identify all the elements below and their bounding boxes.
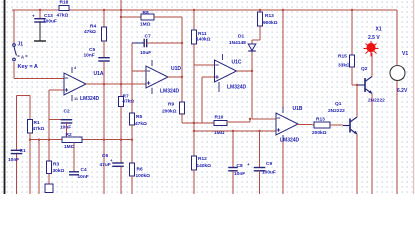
switch J1 — [13, 44, 28, 61]
svg-text:V1: V1 — [402, 51, 408, 57]
label C4 value — [78, 174, 89, 180]
label D1 — [238, 34, 244, 40]
op-amp U1B — [276, 113, 298, 135]
wire U1B minus in — [252, 118, 276, 120]
resistor R5 — [129, 113, 134, 125]
pin stub — [151, 60, 153, 66]
junction — [181, 42, 183, 44]
wire C9 top lead — [259, 131, 261, 167]
wire C1 branch — [17, 96, 31, 195]
svg-text:6.2V: 6.2V — [397, 88, 408, 94]
junction — [356, 84, 358, 86]
pin stub — [282, 107, 284, 113]
svg-text:U1A: U1A — [94, 71, 104, 77]
wire D1 cathode down — [251, 52, 253, 120]
wire R8 left lead — [121, 16, 141, 18]
resistor R1 — [27, 120, 32, 134]
capacitor C8 — [228, 168, 238, 171]
svg-text:C2: C2 — [64, 108, 70, 114]
capacitor C6 — [112, 163, 124, 166]
svg-text:U1D: U1D — [171, 66, 181, 72]
svg-text:10nF: 10nF — [8, 157, 19, 163]
label V1 — [402, 51, 408, 57]
label R14 value — [263, 20, 278, 26]
svg-text:200kΩ: 200kΩ — [312, 130, 327, 136]
wire R15 bottom lead — [351, 67, 353, 85]
wire C4 top lead — [73, 143, 75, 172]
svg-text:2N2222: 2N2222 — [328, 108, 345, 114]
label R7 value — [122, 98, 134, 104]
resistor R6 — [129, 163, 134, 176]
junction — [38, 139, 40, 141]
label R2 — [66, 132, 72, 138]
label R15 — [338, 54, 347, 60]
label R18 — [60, 0, 69, 5]
wire R14 top stub — [259, 10, 261, 12]
wire Q2 emitter down — [371, 94, 373, 195]
junction — [282, 9, 284, 11]
label U1A LM324D — [80, 96, 100, 102]
junction — [120, 83, 122, 85]
resistor R2 — [62, 137, 82, 143]
junction — [258, 130, 260, 132]
wire V1 bottom lead — [396, 81, 398, 194]
wire U1B V+ feed — [282, 10, 284, 108]
wire R10 to minus node — [249, 119, 251, 122]
wire feedback down — [181, 17, 183, 43]
pin stub — [151, 88, 153, 94]
label U1D LM324D — [160, 89, 180, 95]
wire C8 top lead — [232, 131, 234, 167]
junction — [131, 139, 133, 141]
svg-text:LM324D: LM324D — [227, 85, 247, 91]
label R12 value — [197, 163, 212, 169]
wire left rail lower — [13, 62, 15, 79]
wire R3 top chain — [48, 90, 50, 161]
svg-text:11: 11 — [74, 97, 78, 101]
wire R1 top lead — [29, 96, 31, 120]
pin stub — [282, 135, 284, 141]
label R8 — [143, 10, 149, 16]
window border line — [4, 0, 6, 194]
wire R15 top lead — [351, 10, 353, 55]
label R11 — [198, 31, 207, 37]
label C13 — [44, 13, 53, 19]
wire R9 bottom lead — [181, 113, 183, 123]
label R11 value — [196, 37, 211, 43]
resistor R7 — [118, 97, 123, 107]
svg-text:200kΩ: 200kΩ — [162, 109, 177, 115]
svg-text:R3: R3 — [53, 162, 59, 168]
junction — [259, 9, 261, 11]
label C1 value — [8, 157, 19, 163]
svg-text:X1: X1 — [376, 27, 382, 33]
svg-text:47kΩ: 47kΩ — [33, 126, 45, 132]
junction — [181, 76, 183, 78]
svg-text:2.5 V: 2.5 V — [368, 35, 380, 41]
label R5 value — [135, 121, 147, 127]
resistor R13 — [314, 122, 330, 128]
resistor R9 — [179, 102, 184, 114]
label R3 — [53, 162, 59, 168]
label C6 — [102, 153, 108, 159]
svg-text:C4: C4 — [81, 167, 87, 173]
svg-text:+: + — [32, 14, 35, 19]
svg-text:140kΩ: 140kΩ — [196, 37, 211, 43]
junction — [193, 122, 195, 124]
wire C7 left lead — [132, 42, 144, 44]
wire C13 top lead — [39, 10, 41, 19]
capacitor C1 — [11, 150, 23, 153]
pin stub — [218, 82, 220, 92]
junction — [103, 139, 105, 141]
wire to R9 — [181, 43, 183, 102]
wire U1C minus in — [194, 64, 215, 66]
junction — [39, 9, 41, 11]
wire C7 branch down — [131, 43, 133, 113]
svg-text:C8: C8 — [237, 163, 243, 169]
wire C7 right lead — [147, 42, 182, 44]
capacitor C2 — [61, 120, 73, 123]
label Key = A — [18, 64, 38, 70]
wire Q1 emitter down — [356, 134, 358, 194]
svg-text:R6: R6 — [137, 167, 143, 173]
wire left rail upper — [13, 10, 15, 45]
label C8 value — [234, 171, 245, 177]
label R10 value — [214, 130, 225, 136]
wire C2 tap — [49, 119, 67, 121]
junction — [232, 130, 234, 132]
label R10 — [215, 115, 224, 121]
wire R10 right lead — [227, 121, 250, 123]
wire U1B minus in — [132, 70, 146, 72]
label C2 — [64, 108, 70, 114]
junction — [120, 16, 122, 18]
junction — [103, 83, 105, 85]
label R4 — [90, 23, 96, 29]
svg-text:10uF: 10uF — [140, 50, 151, 56]
wire top rail left — [12, 9, 59, 11]
label R1 value — [33, 126, 45, 132]
label R15 value — [338, 63, 350, 69]
resistor R12 — [191, 156, 196, 170]
resistor R15 — [349, 55, 354, 67]
svg-text:47kΩ: 47kΩ — [57, 13, 69, 19]
svg-text:R18: R18 — [60, 0, 69, 5]
label U1C LM324D — [227, 85, 247, 91]
op-amp U1A — [64, 73, 86, 95]
label R14 — [265, 13, 274, 19]
wire V1 top lead — [396, 10, 398, 65]
label R2 value — [64, 144, 75, 150]
label C8 — [237, 163, 243, 169]
junction — [251, 70, 253, 72]
lamp X1 — [364, 41, 379, 57]
wire R11 top lead — [193, 10, 195, 30]
label U1C — [232, 60, 242, 66]
svg-text:30kΩ: 30kΩ — [53, 168, 65, 174]
svg-text:2N2222: 2N2222 — [368, 98, 385, 104]
label R18 value — [57, 13, 69, 19]
svg-text:C13: C13 — [44, 13, 53, 19]
junction — [48, 139, 50, 141]
svg-text:R15: R15 — [338, 54, 347, 60]
svg-text:+: + — [402, 66, 405, 71]
svg-text:R4: R4 — [90, 23, 96, 29]
wire R12 bottom lead — [193, 170, 195, 194]
resistor R10 — [214, 121, 227, 126]
label R3 value — [53, 168, 65, 174]
wire to D1 — [252, 39, 260, 41]
wire C9 bottom lead — [259, 171, 261, 194]
junction — [249, 118, 251, 120]
wire U1A minus in — [14, 78, 64, 80]
svg-text:R11: R11 — [198, 31, 207, 37]
junction — [103, 9, 105, 11]
wire U1A plus in — [49, 89, 64, 91]
transistor Q2 — [358, 77, 372, 94]
wire U1C plus branch — [201, 77, 203, 123]
label C9 value — [262, 170, 276, 176]
wire R5 to R6 — [131, 125, 133, 163]
label U1B — [293, 106, 303, 112]
junction — [193, 130, 195, 132]
wire to Q2 base — [352, 84, 358, 86]
wire U1B output — [297, 123, 314, 126]
svg-text:1MΩ: 1MΩ — [64, 144, 75, 150]
wire R6 bottom lead — [131, 176, 133, 194]
wire U1C plus in — [202, 76, 215, 78]
svg-text:100kΩ: 100kΩ — [136, 173, 151, 179]
label Q1 — [335, 101, 342, 107]
svg-text:R1: R1 — [34, 120, 40, 126]
svg-text:J1: J1 — [18, 42, 24, 48]
svg-text:100uF: 100uF — [43, 19, 57, 25]
label R6 value — [136, 173, 151, 179]
label C2 value — [60, 125, 71, 131]
label J1 — [18, 42, 24, 48]
label R4 value — [84, 29, 96, 35]
svg-text:C1: C1 — [20, 148, 26, 154]
wire R4 top lead — [103, 10, 105, 27]
label R13 value — [312, 130, 327, 136]
svg-text:R13: R13 — [265, 13, 274, 19]
svg-text:R5: R5 — [136, 114, 142, 120]
label C6 value — [100, 162, 111, 168]
svg-text:U1B: U1B — [293, 106, 303, 112]
capacitor C9 — [254, 168, 266, 171]
wire long bus x121 upper — [120, 0, 122, 97]
junction — [120, 9, 122, 11]
label V1 value — [397, 88, 408, 94]
label Q2 — [361, 66, 368, 72]
wire C5 chain down — [103, 61, 105, 194]
label C5 value — [84, 53, 95, 59]
junction — [29, 139, 31, 141]
svg-text:900kΩ: 900kΩ — [263, 20, 278, 26]
svg-text:1N4148: 1N4148 — [229, 40, 246, 46]
svg-text:R12: R12 — [198, 156, 207, 162]
label U1A — [94, 71, 104, 77]
wire U1A output — [86, 83, 146, 85]
resistor R8 — [141, 14, 154, 20]
label X1 value — [368, 35, 380, 41]
svg-text:R2: R2 — [66, 132, 72, 138]
wire R11 to R12 — [193, 44, 195, 156]
wire bottom bus right — [82, 139, 132, 141]
label C13 plus — [32, 14, 35, 19]
wire branch down — [38, 140, 40, 194]
connector pad — [45, 184, 53, 193]
svg-text:C5: C5 — [89, 47, 95, 53]
svg-text:Q2: Q2 — [361, 66, 368, 72]
label R12 — [198, 156, 207, 162]
svg-text:LM324D: LM324D — [160, 89, 180, 95]
wire bus below C6 — [120, 166, 122, 194]
svg-text:R8: R8 — [143, 10, 149, 16]
wire C2 bottom lead — [66, 123, 68, 137]
resistor R3 — [46, 161, 51, 174]
svg-text:10nF: 10nF — [84, 53, 95, 59]
pin stub U1A V- — [71, 95, 73, 101]
wire D1 anode lead — [251, 40, 253, 44]
wire R14 bottom lead — [259, 26, 261, 40]
label C9 — [266, 161, 272, 167]
op-amp U1C — [215, 60, 237, 82]
svg-text:+: + — [247, 162, 250, 167]
label C5 — [89, 47, 95, 53]
label X1 — [376, 27, 382, 33]
wire top rail — [69, 9, 397, 11]
wire Q1 collector up — [356, 85, 358, 117]
svg-text:U1C: U1C — [232, 60, 242, 66]
label R9 — [168, 102, 174, 108]
label R7 — [123, 94, 129, 100]
wire U1C output — [237, 70, 253, 72]
svg-text:1MΩ: 1MΩ — [140, 22, 151, 28]
label R5 — [136, 114, 142, 120]
svg-text:C7: C7 — [145, 34, 151, 40]
svg-text:A: A — [21, 55, 24, 60]
sheet border right — [413, 0, 414, 194]
svg-text:R10: R10 — [215, 115, 224, 121]
label U1D — [171, 66, 181, 72]
label C9 plus — [247, 162, 250, 167]
label C4 — [81, 167, 87, 173]
svg-text:10nF: 10nF — [234, 171, 245, 177]
wire bottom bus — [30, 139, 62, 141]
label Q2 value — [368, 98, 385, 104]
capacitor C7 — [144, 39, 147, 48]
junction — [120, 139, 122, 141]
label R13 — [316, 116, 325, 122]
label switch actuator — [21, 55, 24, 60]
source V1 — [390, 66, 405, 82]
pin stub U1A V+ — [71, 67, 73, 73]
svg-text:100uF: 100uF — [262, 170, 276, 176]
svg-text:47kΩ: 47kΩ — [135, 121, 147, 127]
svg-text:Key = A: Key = A — [18, 64, 38, 70]
wire R8 right lead — [154, 16, 182, 18]
svg-text:R13: R13 — [316, 116, 325, 122]
svg-text:10uF: 10uF — [60, 125, 71, 131]
svg-text:140kΩ: 140kΩ — [197, 163, 212, 169]
wire R3 bottom lead — [48, 174, 50, 185]
label R1 — [34, 120, 40, 126]
wire U1B output — [168, 76, 182, 78]
capacitor C13 — [34, 19, 46, 22]
svg-text:C6: C6 — [102, 153, 108, 159]
pin number 4 — [74, 66, 77, 70]
svg-text:R9: R9 — [168, 102, 174, 108]
svg-text:10nF: 10nF — [78, 174, 89, 180]
resistor R4 — [101, 27, 106, 41]
wire R13 to Q1 — [330, 124, 343, 126]
wire long bus x121 lower — [120, 107, 122, 164]
resistor R14 — [257, 12, 262, 26]
wire Q2 collector up — [371, 53, 373, 77]
wire U1B plus in — [194, 130, 276, 132]
svg-text:Q1: Q1 — [335, 101, 342, 107]
capacitor C4 — [69, 172, 79, 175]
label R9 value — [162, 109, 177, 115]
wire R1 bottom lead — [29, 133, 31, 194]
label C6 plus — [110, 158, 113, 163]
svg-text:LM324D: LM324D — [80, 96, 100, 102]
label C13 value — [43, 19, 57, 25]
label D1 value — [229, 40, 246, 46]
wire C13 bottom lead — [34, 22, 46, 41]
op-amp U1D — [146, 66, 168, 88]
svg-text:47kΩ: 47kΩ — [84, 29, 96, 35]
svg-text:47kΩ: 47kΩ — [122, 98, 134, 104]
diode D1 — [248, 44, 256, 51]
transistor Q1 — [343, 117, 357, 134]
wire C8 bottom lead — [232, 171, 234, 194]
wire R4 to C5 — [103, 41, 105, 58]
pin stub — [222, 54, 224, 60]
pin number 11 — [74, 97, 78, 101]
label Q1 value — [328, 108, 345, 114]
label R6 — [137, 167, 143, 173]
resistor R11 — [191, 30, 196, 44]
label C7 value — [140, 50, 151, 56]
wire U1B V- down — [282, 141, 284, 194]
svg-text:33kΩ: 33kΩ — [338, 63, 350, 69]
label C7 — [145, 34, 151, 40]
capacitor C5 — [98, 58, 110, 61]
svg-text:D1: D1 — [238, 34, 244, 40]
junction — [193, 9, 195, 11]
label R8 value — [140, 22, 151, 28]
wire R9 to R10 — [182, 122, 214, 124]
label C1 — [20, 148, 26, 154]
svg-text:C9: C9 — [266, 161, 272, 167]
resistor R18 — [59, 5, 69, 10]
junction — [351, 9, 353, 11]
label U1B LM324D — [280, 138, 300, 144]
